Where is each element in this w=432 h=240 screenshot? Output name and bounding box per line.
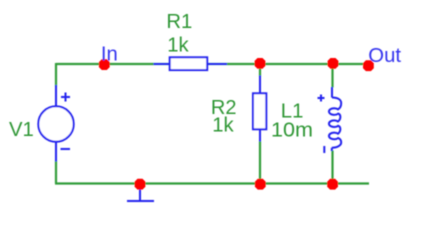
wire top horizontal In to Out xyxy=(56,63,368,65)
svg-text:In: In xyxy=(101,44,118,66)
svg-text:R1: R1 xyxy=(166,11,192,33)
resistor R2 xyxy=(253,76,266,142)
wire left vertical lower segment xyxy=(55,160,57,184)
node L1 top junction dot xyxy=(328,58,339,69)
svg-text:Out: Out xyxy=(368,45,401,67)
node R2 bottom junction dot xyxy=(255,179,266,190)
ground xyxy=(127,186,154,201)
inductor L1 xyxy=(318,87,342,153)
node R2 top junction dot xyxy=(255,58,266,69)
node Out terminal dot xyxy=(363,60,374,71)
wire R2 top stem xyxy=(259,64,261,77)
wire L1 top stem xyxy=(331,64,333,88)
svg-text:V1: V1 xyxy=(9,119,34,141)
node ground junction dot xyxy=(135,179,146,190)
voltage source V1 xyxy=(38,85,73,162)
wire left vertical upper segment xyxy=(55,63,57,87)
svg-text:10m: 10m xyxy=(271,120,313,142)
node L1 bottom junction dot xyxy=(327,179,338,190)
node In junction dot xyxy=(99,59,110,70)
wire L1 bottom stem xyxy=(331,151,333,184)
wire bottom horizontal xyxy=(55,182,369,184)
wire R2 bottom stem xyxy=(259,141,261,184)
svg-text:1k: 1k xyxy=(167,34,189,56)
resistor R1 xyxy=(154,57,228,70)
svg-text:1k: 1k xyxy=(212,115,234,137)
